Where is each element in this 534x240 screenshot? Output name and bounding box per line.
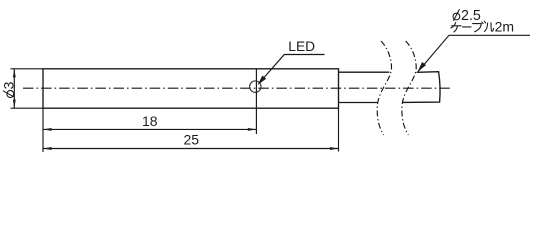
phi2.5 label: diameter symbol circle (453, 13, 460, 20)
phi3 extension line top (11, 68, 44, 70)
cable top edge (339, 71, 390, 73)
cable 2m label: katakana ru (485, 23, 494, 32)
18 dimension line (43, 128, 256, 130)
svg-text:25: 25 (184, 131, 200, 147)
break line 1 (377, 41, 391, 135)
LED leader arrowhead (257, 76, 266, 86)
extension line at body right edge (for 25 dim) (338, 108, 340, 151)
18 arrow left (43, 128, 52, 131)
break line 2 (402, 41, 416, 135)
cable bottom edge (339, 102, 378, 104)
cable 2m label: katakana bu (473, 21, 486, 32)
phi3 label: diameter symbol circle (7, 90, 14, 97)
phi3 dimension text (rotated) (1, 81, 17, 97)
LED leader line (259, 55, 325, 84)
25 dimension line (43, 148, 339, 150)
phi3 extension line bottom (11, 107, 44, 109)
phi3 arrow up (13, 69, 16, 78)
LED circle (250, 81, 261, 92)
svg-text:2.5: 2.5 (461, 8, 481, 24)
cable leader arrowhead (418, 62, 427, 72)
svg-text:18: 18 (142, 113, 158, 129)
extension line at LED (for 18 dim) (255, 69, 257, 134)
25 arrow right (330, 147, 339, 150)
cable 2m label: katakana ke (451, 23, 461, 32)
phi2.5 label: diameter symbol slash (453, 9, 459, 21)
svg-text:LED: LED (288, 39, 315, 54)
phi3 label: diameter symbol slash (3, 91, 15, 97)
cable 2m label: katakana long-vowel bar (462, 26, 471, 28)
extension line at body left edge (for 18/25 dims) (42, 108, 44, 152)
svg-text:2m: 2m (495, 19, 514, 35)
cable label leader line (418, 35, 530, 71)
25 arrow left (43, 147, 52, 150)
phi3 dimension line (13, 69, 15, 108)
cable end piece (402, 72, 440, 103)
centerline (23, 87, 451, 89)
svg-text:3: 3 (1, 81, 17, 89)
sensor body outline (43, 69, 339, 108)
phi3 arrow down (13, 100, 16, 109)
18 arrow right (248, 128, 257, 131)
